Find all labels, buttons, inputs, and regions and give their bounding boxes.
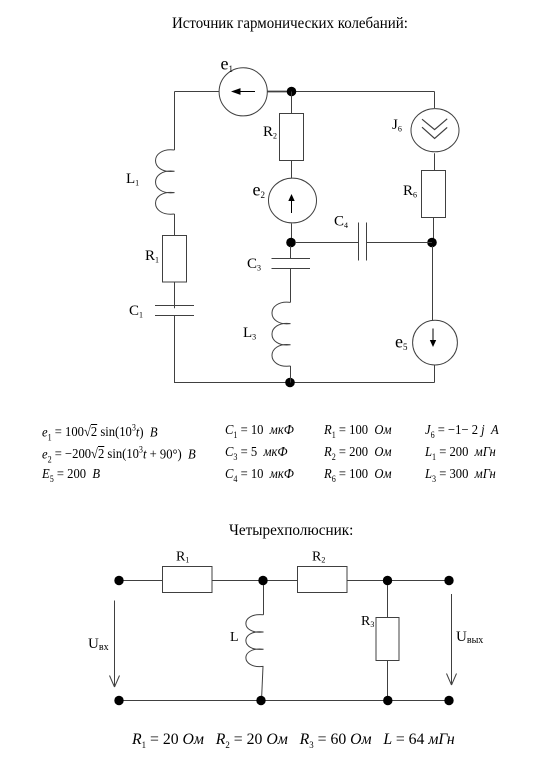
junction dot bottom L	[256, 696, 265, 705]
equation R2	[324, 445, 392, 463]
wire e2 to node D	[291, 224, 293, 243]
resistor R6	[403, 171, 446, 218]
wire left vertical top	[174, 92, 176, 151]
wire c2 top: left terminal to R1	[119, 580, 163, 582]
terminal dot top-left	[114, 576, 123, 585]
title: Четырехполюсник:	[229, 521, 353, 540]
equation L3	[425, 467, 496, 485]
terminal dot top-right	[444, 576, 453, 585]
svg-text:e1: e1	[221, 54, 234, 75]
equation R6	[324, 467, 392, 485]
wire L to bottom	[262, 666, 264, 700]
node D junction dot middle	[286, 238, 296, 248]
arrow Uvyx	[447, 594, 484, 685]
equation E5	[42, 467, 100, 485]
svg-text:C3: C3	[247, 256, 261, 273]
capacitor C1	[129, 303, 194, 320]
terminal dot bottom-right	[444, 696, 453, 705]
wire R2 to right terminal	[347, 580, 449, 582]
voltage source e2	[253, 178, 317, 223]
inductor L1	[126, 150, 175, 214]
svg-text:Uвх: Uвх	[88, 636, 109, 653]
wire node to R3	[387, 585, 389, 618]
svg-text:C4: C4	[334, 214, 348, 231]
svg-text:Uвых: Uвых	[456, 629, 483, 646]
voltage source e5	[395, 320, 457, 365]
equation J6	[425, 423, 499, 441]
svg-text:R2: R2	[263, 124, 277, 141]
equation e2	[42, 445, 196, 465]
title: Источник гармонических колебаний:	[172, 14, 408, 33]
wire top-middle horizontal	[268, 91, 435, 93]
wire right vertical to J6	[434, 92, 436, 109]
svg-text:R6: R6	[403, 183, 417, 200]
arrow Uvx	[88, 601, 120, 688]
wire C4 to node E	[367, 242, 433, 244]
wire node B down to R2	[291, 92, 293, 114]
wire C3 to L3	[290, 269, 292, 303]
wire node D to C4	[295, 242, 359, 244]
wire R1 to C1	[174, 282, 176, 308]
wire R1 to R2	[212, 580, 298, 582]
resistor R2 (c2)	[298, 550, 348, 593]
svg-text:e2: e2	[253, 180, 266, 201]
svg-text:L: L	[230, 630, 239, 645]
wire c2 bottom	[119, 700, 449, 702]
svg-text:J6: J6	[392, 117, 402, 134]
wire e1 to node B (bold overlap)	[268, 91, 290, 93]
resistor R1 (c2)	[163, 550, 213, 593]
terminal dot bottom-left	[114, 696, 123, 705]
equation C3	[225, 445, 288, 463]
node junction dot (R2/R3)	[383, 576, 392, 585]
node E junction dot right	[427, 238, 437, 248]
wire C1 to bottom-left corner	[174, 316, 176, 383]
svg-text:R1: R1	[176, 550, 189, 565]
svg-text:L3: L3	[243, 325, 256, 342]
wire node D to C3	[290, 246, 292, 259]
wire bottom horizontal	[174, 382, 435, 384]
inductor L3	[243, 302, 291, 366]
wire e5 to bottom	[434, 365, 436, 383]
resistor R3 (c2)	[361, 614, 399, 661]
svg-text:R2: R2	[312, 550, 325, 565]
resistor R2	[263, 114, 304, 161]
junction dot bottom R3	[383, 696, 392, 705]
wire R6 to node E	[433, 218, 435, 243]
wire L3 to bottom	[290, 366, 292, 383]
voltage source e1	[219, 54, 267, 116]
node F junction dot bottom	[285, 378, 295, 388]
equation C1	[225, 423, 294, 441]
wire R2 to e2	[291, 161, 293, 179]
node junction dot (R1/R2/L)	[258, 576, 267, 585]
svg-text:R3: R3	[361, 614, 374, 629]
svg-text:R1: R1	[145, 248, 159, 265]
equation R1	[324, 423, 392, 441]
equation e1	[42, 423, 158, 443]
svg-text:e5: e5	[395, 332, 408, 353]
wire node E down to e5	[432, 246, 434, 321]
wire R3 to bottom	[387, 661, 389, 701]
wire node to L coil	[263, 585, 265, 615]
resistor R1	[145, 236, 187, 283]
equation C4	[225, 467, 294, 485]
wire J6 to R6	[434, 153, 436, 170]
wire L1 to R1	[174, 214, 176, 236]
svg-text:L1: L1	[126, 171, 139, 188]
node B junction dot top	[287, 87, 297, 97]
inductor L (c2)	[230, 615, 264, 667]
capacitor C4	[334, 214, 367, 261]
svg-text:C1: C1	[129, 303, 143, 320]
equation L1	[425, 445, 496, 463]
capacitor C3	[247, 256, 310, 273]
wire top-left horizontal	[175, 91, 220, 93]
bottom values line	[132, 730, 455, 751]
current source J6	[392, 109, 459, 152]
